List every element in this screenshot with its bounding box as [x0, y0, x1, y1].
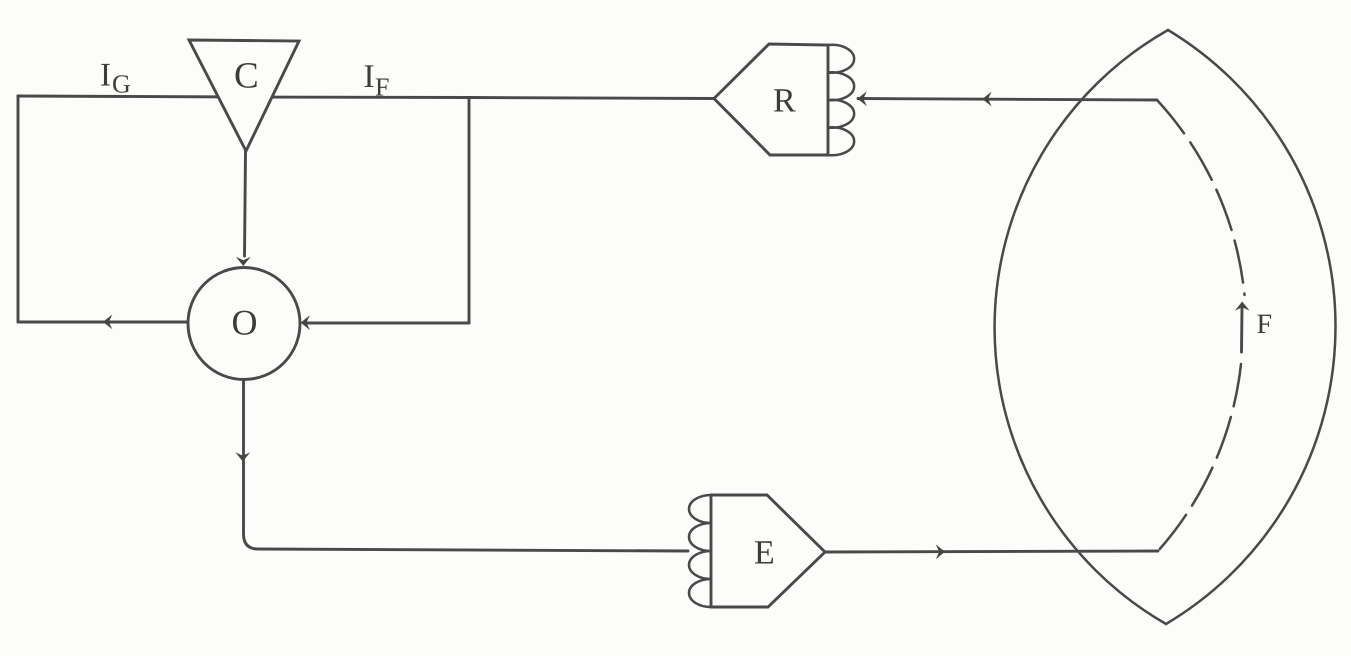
lens right arc: [1166, 30, 1336, 624]
dashed arc upper part inside lens: [1157, 100, 1245, 295]
wire: from lens F back to receptor R: [858, 99, 1157, 101]
dashed arc lower part inside lens: [1158, 364, 1241, 551]
wire: right vertical from I_F line down: [468, 98, 471, 324]
svg-text:C: C: [234, 56, 259, 97]
arrow F pointing up on dashed arc: [1240, 307, 1243, 352]
arrowhead pointing right on E output wire: [936, 544, 945, 559]
wire: top feedback line I_F from C to receptor R left point: [246, 97, 714, 99]
coil bumps on left of effector E: [689, 495, 711, 607]
circle O: [188, 268, 300, 380]
arrowhead of F arrow pointing up: [1235, 302, 1250, 311]
arrowhead into top of circle O: [236, 257, 251, 266]
wire: horizontal from right vertical into circle O: [304, 322, 469, 325]
lens left arc: [995, 30, 1168, 624]
svg-text:E: E: [754, 535, 775, 572]
receptor R pentagon body: [714, 44, 828, 155]
svg-text:G: G: [112, 70, 131, 99]
wire: top goal line I_G from left loop to comparator C: [18, 96, 246, 97]
svg-text:F: F: [1257, 309, 1273, 340]
svg-text:R: R: [773, 83, 796, 120]
svg-text:I: I: [364, 59, 375, 95]
coil bumps on right of receptor R: [828, 45, 854, 156]
svg-text:F: F: [375, 73, 389, 102]
arrowhead into right side of circle O: [301, 315, 310, 330]
svg-text:I: I: [100, 58, 111, 94]
wire: from C apex down to circle O: [245, 151, 246, 256]
wire: from E right point to lens F: [825, 551, 1158, 552]
arrowhead pointing down on O output wire: [235, 452, 250, 461]
arrowhead mid-wire pointing left toward R: [982, 92, 991, 107]
arrowhead at R coil end pointing left: [858, 91, 867, 106]
wire: bottom-left horizontal from circle O to left loop: [18, 321, 189, 324]
wire: from bottom of circle O down and around to effector E: [244, 380, 689, 552]
effector E pentagon body: [711, 495, 825, 607]
svg-text:O: O: [232, 303, 258, 343]
wire: left vertical of feedback loop: [17, 96, 20, 322]
triangle comparator C: [189, 40, 299, 151]
arrowhead on bottom-left wire pointing left: [103, 315, 112, 330]
